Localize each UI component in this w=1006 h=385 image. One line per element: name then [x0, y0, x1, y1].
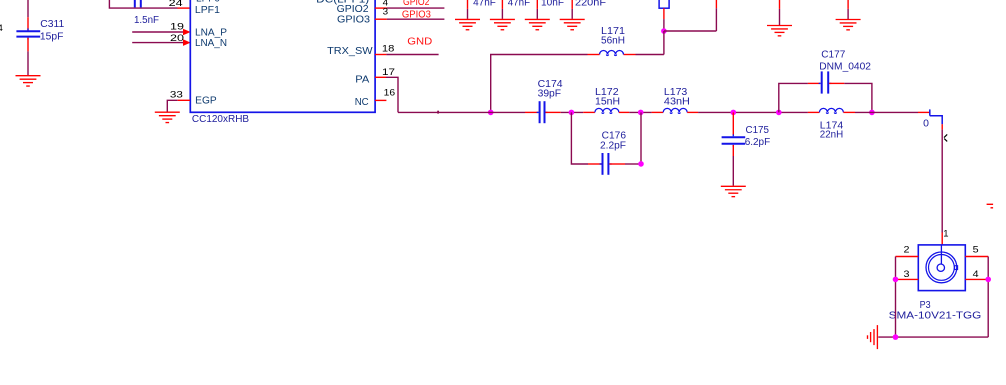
wire to pin 24: [109, 0, 177, 8]
svg-text:17: 17: [382, 67, 395, 78]
connector P3 SMA body: [918, 245, 965, 291]
probe mark: [944, 134, 947, 141]
port arrow LNA_P: [183, 29, 191, 36]
node junction pin3: [893, 277, 899, 283]
node junction C176 branch top: [569, 110, 575, 116]
svg-text:24: 24: [169, 0, 183, 9]
ground 5: [767, 26, 792, 36]
svg-text:16: 16: [384, 88, 396, 99]
node junction bottom: [893, 334, 899, 340]
svg-text:56nH: 56nH: [601, 35, 625, 46]
wire to 0 ohm jumper: [855, 111, 929, 113]
svg-text:GPIO3: GPIO3: [402, 10, 431, 21]
wire LNA_N: [132, 42, 183, 44]
wire SMA pin 4: [965, 278, 988, 280]
ground 1: [455, 19, 480, 29]
node junction on main line at x490: [488, 110, 494, 116]
ground 3: [525, 19, 550, 29]
ground stub 5: [779, 0, 781, 25]
resistor 0 ohm jumper: [930, 109, 942, 124]
svg-text:LPF1: LPF1: [195, 5, 220, 16]
svg-text:43nH: 43nH: [664, 96, 690, 107]
wire GPIO3 pin 3: [375, 18, 444, 20]
wire L172 right lead: [619, 111, 629, 113]
svg-text:4: 4: [0, 23, 3, 34]
wire 47nF cap stub 1: [467, 0, 469, 19]
node junction at resistor: [661, 28, 667, 34]
svg-text:LNA_N: LNA_N: [195, 38, 227, 49]
inductor L173: [663, 108, 687, 112]
svg-text:C175: C175: [746, 125, 770, 136]
wire red lead into L174: [808, 111, 820, 113]
ground below EGP: [155, 112, 180, 122]
svg-text:TRX_SW: TRX_SW: [327, 46, 373, 57]
wire SMA right drop: [987, 257, 989, 338]
ground below C175: [721, 186, 746, 196]
svg-text:15pF: 15pF: [40, 32, 64, 43]
wire from L171 to PA node: [491, 55, 588, 113]
svg-text:EGP: EGP: [195, 96, 217, 107]
capacitor C177: [819, 71, 832, 93]
wire SMA left drop: [895, 257, 897, 338]
svg-text:19: 19: [170, 22, 184, 33]
node junction C175 branch: [731, 110, 737, 116]
svg-text:NC: NC: [355, 97, 369, 108]
svg-text:15nH: 15nH: [595, 96, 620, 107]
wire EGP pin 33: [167, 100, 190, 111]
svg-text:DNM_0402: DNM_0402: [819, 61, 871, 72]
wire resistor to junction: [663, 8, 665, 31]
wire to L173: [629, 111, 651, 113]
wire L174 right lead: [843, 111, 855, 113]
ground 4: [560, 19, 585, 29]
wire C176 branch: [571, 112, 601, 164]
inductor L174: [819, 108, 843, 112]
svg-text:1: 1: [943, 228, 948, 239]
wire 220nF cap stub 4: [571, 0, 573, 19]
svg-text:4: 4: [973, 269, 979, 280]
svg-text:22nH: 22nH: [820, 130, 843, 141]
svg-text:CC120xRHB: CC120xRHB: [192, 114, 250, 125]
node junction C176 right corner: [638, 161, 644, 167]
svg-text:GPIO3: GPIO3: [337, 15, 370, 26]
svg-text:3: 3: [383, 7, 389, 18]
ground 2: [490, 19, 515, 29]
wire C174 right lead: [546, 111, 561, 113]
wire PA pin 17 to main line: [375, 77, 398, 112]
wire NC pin 16 stub: [375, 99, 386, 101]
wire red lead into L172: [583, 111, 595, 113]
wire C175 top lead: [732, 112, 734, 135]
wire SMA bottom rail: [878, 336, 988, 338]
inductor L172: [595, 108, 619, 112]
ground stub 6: [847, 0, 849, 19]
svg-text:6.2pF: 6.2pF: [745, 137, 771, 148]
svg-text:20: 20: [170, 33, 184, 44]
wire C176 right to riser: [609, 112, 641, 164]
resistor body clipped at top: [659, 0, 669, 8]
svg-text:GND: GND: [407, 37, 432, 48]
svg-text:LNA_P: LNA_P: [195, 27, 227, 38]
red dashes clipped ground: [987, 204, 994, 208]
svg-text:C177: C177: [821, 50, 845, 61]
wire L171 row left + riser to main line: [636, 54, 664, 56]
svg-text:SMA-10V21-TGG: SMA-10V21-TGG: [889, 311, 982, 322]
wire main line PA segment: [398, 111, 525, 113]
op IC U1 CC120xRHB box: [190, 0, 375, 112]
wire SMA pin 2: [896, 256, 919, 258]
wire L173 right lead: [687, 111, 698, 113]
capacitor C174: [537, 101, 548, 123]
svg-text:5: 5: [973, 245, 979, 256]
svg-text:GPIO2: GPIO2: [337, 4, 369, 15]
svg-text:39pF: 39pF: [538, 89, 562, 100]
svg-text:LPF0: LPF0: [196, 0, 220, 5]
wire riser from top: [715, 0, 717, 31]
wire C177 right to riser: [829, 83, 872, 112]
node junction C177 left: [776, 110, 782, 116]
node junction pin4: [985, 277, 991, 283]
wire C311 top: [27, 0, 29, 31]
wire C177 branch left riser: [779, 83, 808, 112]
inductor L171: [600, 51, 624, 55]
wire junction down to L171 row: [663, 31, 665, 55]
wire 47nF cap stub 2: [501, 0, 503, 19]
svg-text:2: 2: [904, 245, 910, 256]
wire to C177/L174 section: [698, 111, 808, 113]
wire red lead into C177: [808, 82, 821, 84]
svg-text:33: 33: [170, 89, 183, 100]
node junction at x640: [638, 110, 644, 116]
svg-text:C311: C311: [40, 19, 64, 30]
svg-text:3: 3: [904, 269, 910, 280]
wire red lead into C174: [525, 111, 539, 113]
capacitor C176: [600, 153, 612, 175]
wire C175 bottom lead: [732, 145, 734, 186]
wire tick: [437, 111, 439, 114]
capacitor C175: [722, 134, 746, 146]
svg-text:0: 0: [923, 119, 929, 130]
wire TRX_SW pin 18: [375, 54, 439, 56]
wire C311 bottom: [27, 38, 29, 76]
svg-text:1.5nF: 1.5nF: [134, 15, 159, 26]
node junction L174 right: [869, 110, 875, 116]
wire SMA pin 3: [896, 278, 919, 280]
wire junction to right riser: [664, 30, 717, 32]
svg-text:P3: P3: [920, 300, 931, 311]
wire jumper down to SMA pin1: [941, 124, 943, 245]
ground 6: [836, 20, 861, 30]
svg-text:PA: PA: [355, 75, 369, 86]
ground below C311: [16, 76, 41, 86]
wire GPIO2 pin 4: [375, 7, 444, 9]
svg-text:220nF: 220nF: [575, 0, 606, 9]
wire SMA pin 5: [965, 256, 988, 258]
wire to L172: [561, 111, 584, 113]
capacitor (clipped at top) plates on pin24 wire: [135, 0, 141, 7]
svg-text:2.2pF: 2.2pF: [600, 140, 626, 151]
capacitor C311: [16, 28, 40, 39]
ground sideways at SMA: [868, 325, 878, 349]
port arrow LNA_N: [183, 39, 191, 46]
svg-text:10nF: 10nF: [541, 0, 564, 9]
svg-text:47nF: 47nF: [473, 0, 496, 9]
wire red lead into L173: [652, 111, 664, 113]
svg-text:47nF: 47nF: [508, 0, 530, 9]
svg-text:18: 18: [382, 43, 395, 54]
wire 10nF cap stub 3: [536, 0, 538, 19]
wire LNA_P: [132, 31, 183, 33]
svg-text:GPIO2: GPIO2: [403, 0, 430, 8]
